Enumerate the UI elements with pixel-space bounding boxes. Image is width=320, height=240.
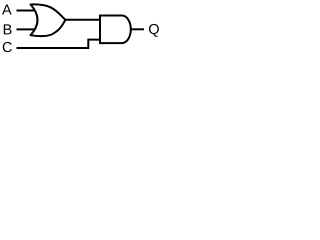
node C label: [3, 42, 12, 52]
node A label: [2, 5, 12, 15]
wire AND output to Q: [130, 28, 144, 30]
wire input A to OR gate: [17, 10, 36, 12]
AND gate U2: [100, 16, 131, 44]
node B label: [4, 24, 12, 34]
wire input B to OR gate: [17, 28, 36, 30]
node Q label: [149, 24, 159, 37]
OR gate U1: [31, 4, 66, 36]
wire OR output to AND input: [64, 19, 100, 21]
wire input C to AND gate (with step up at x=88.3): [17, 40, 101, 48]
background: [0, 0, 166, 57]
